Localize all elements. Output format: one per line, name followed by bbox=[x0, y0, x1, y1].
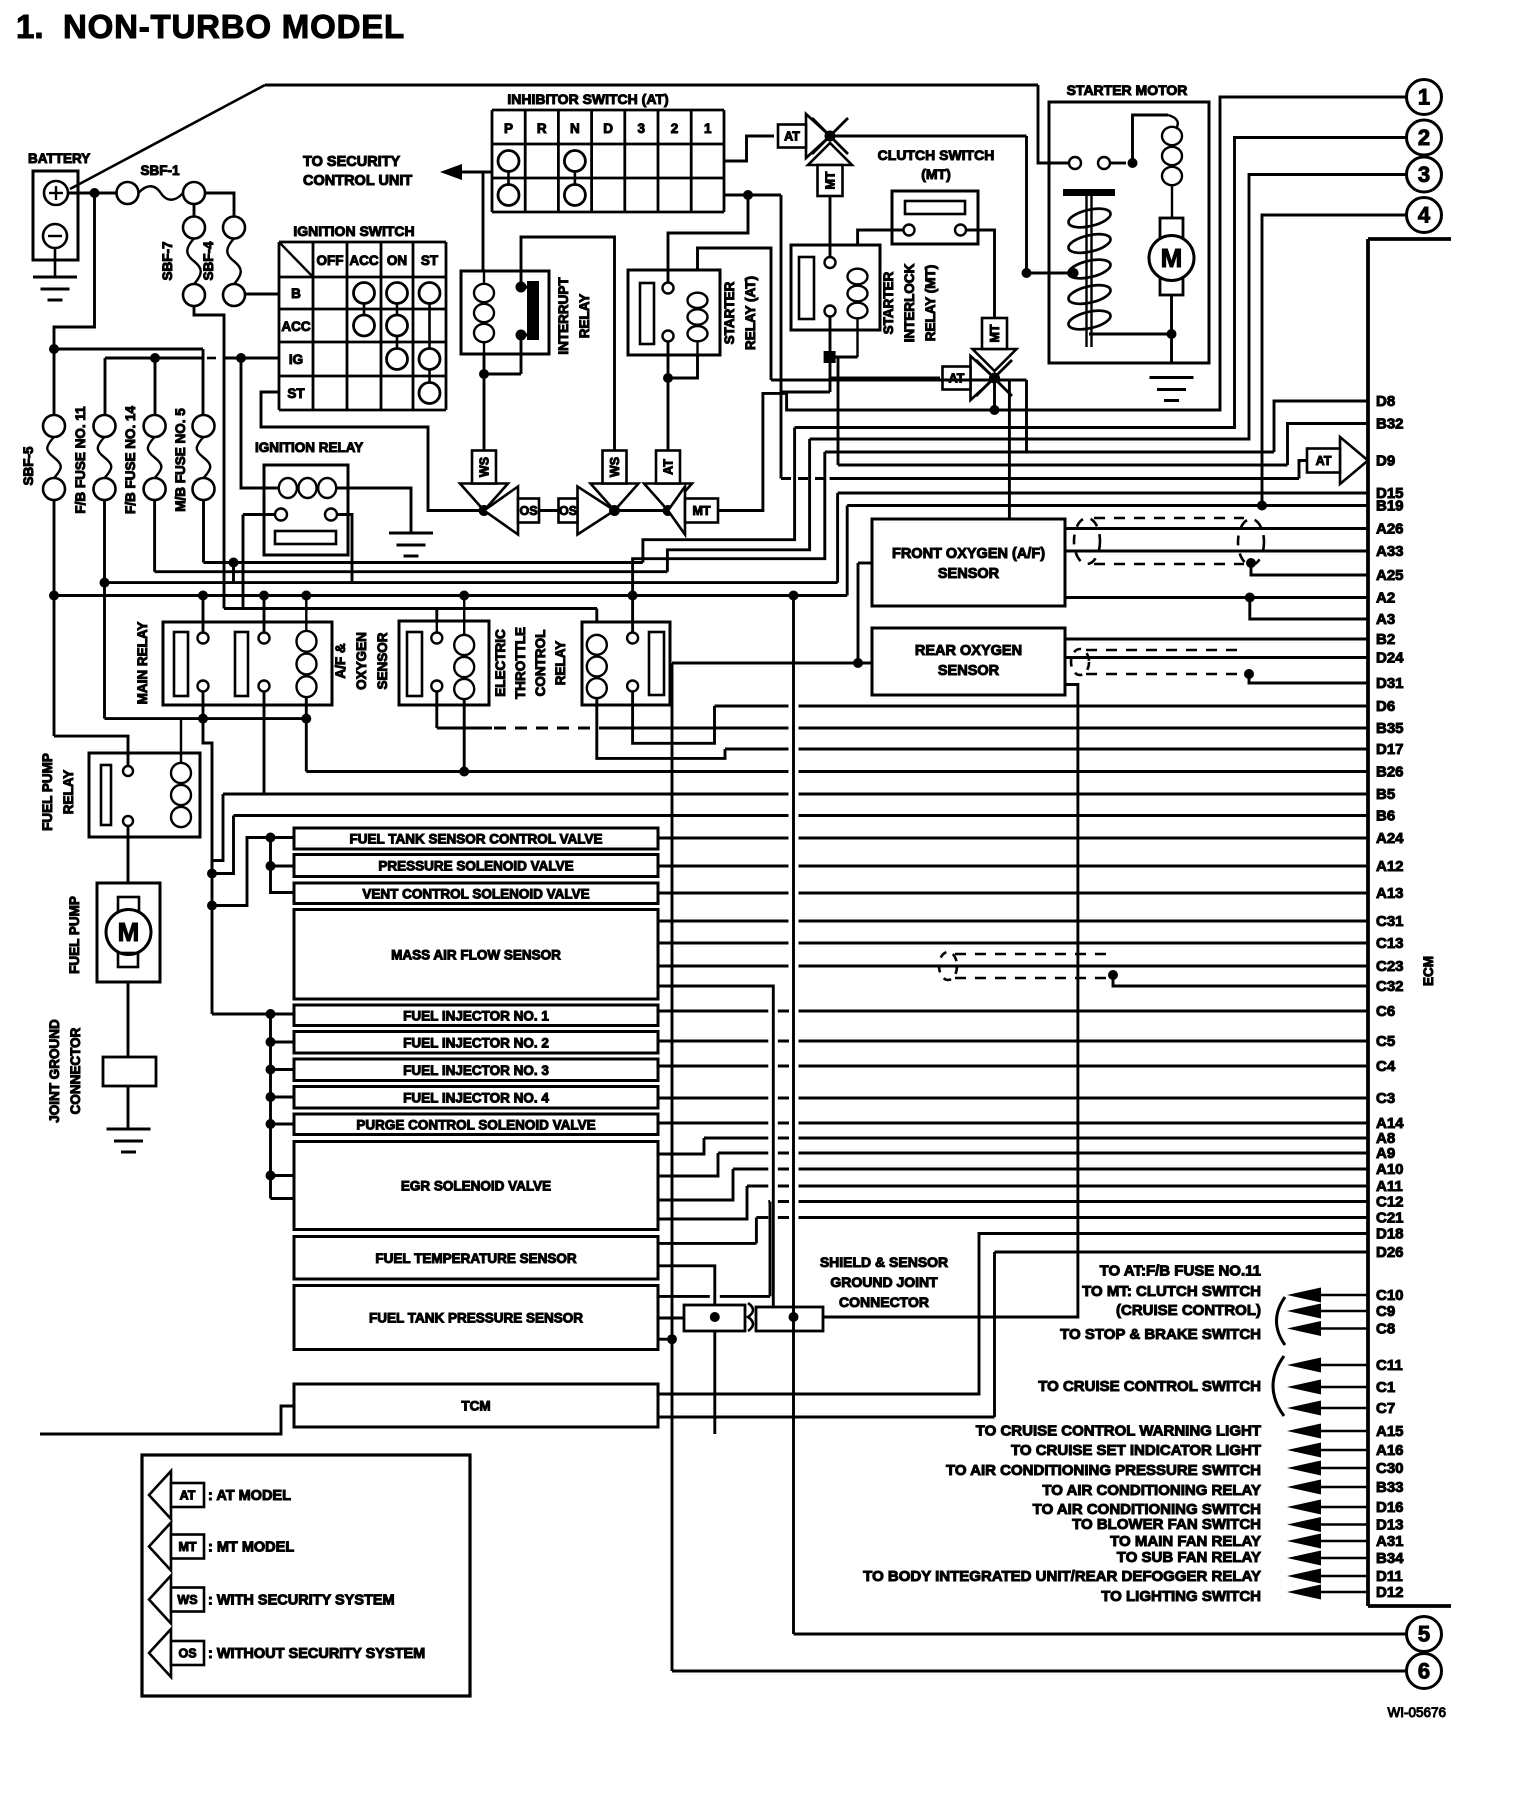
svg-text:MT: MT bbox=[988, 324, 1002, 342]
svg-text:B6: B6 bbox=[1376, 808, 1395, 825]
svg-text:N: N bbox=[570, 121, 580, 136]
svg-text:C11: C11 bbox=[1376, 1357, 1403, 1374]
svg-text:CONNECTOR: CONNECTOR bbox=[839, 1294, 929, 1310]
svg-text:C4: C4 bbox=[1376, 1058, 1396, 1075]
svg-text:B35: B35 bbox=[1376, 720, 1404, 737]
svg-text:EGR SOLENOID VALVE: EGR SOLENOID VALVE bbox=[401, 1179, 551, 1194]
svg-text:B33: B33 bbox=[1376, 1479, 1404, 1496]
svg-text:TO SUB FAN RELAY: TO SUB FAN RELAY bbox=[1117, 1549, 1261, 1566]
svg-text:(MT): (MT) bbox=[921, 166, 951, 182]
svg-text:INHIBITOR SWITCH (AT): INHIBITOR SWITCH (AT) bbox=[507, 91, 668, 107]
svg-text:: AT MODEL: : AT MODEL bbox=[208, 1488, 291, 1504]
svg-text:2: 2 bbox=[671, 121, 679, 136]
svg-text:C7: C7 bbox=[1376, 1400, 1395, 1417]
svg-text:A25: A25 bbox=[1376, 567, 1404, 584]
svg-text:MAIN RELAY: MAIN RELAY bbox=[135, 622, 150, 705]
svg-text:OS: OS bbox=[559, 504, 577, 518]
svg-text:MASS AIR FLOW SENSOR: MASS AIR FLOW SENSOR bbox=[391, 947, 561, 962]
svg-text:PURGE CONTROL SOLENOID VALVE: PURGE CONTROL SOLENOID VALVE bbox=[356, 1117, 595, 1132]
svg-text:C8: C8 bbox=[1376, 1321, 1395, 1338]
svg-text:A11: A11 bbox=[1376, 1178, 1403, 1195]
svg-text:INTERLOCK: INTERLOCK bbox=[902, 263, 917, 342]
svg-text:CONNECTOR: CONNECTOR bbox=[68, 1027, 83, 1114]
svg-text:A26: A26 bbox=[1376, 521, 1404, 538]
svg-text:TO STOP & BRAKE SWITCH: TO STOP & BRAKE SWITCH bbox=[1060, 1326, 1261, 1343]
svg-text:NON-TURBO MODEL: NON-TURBO MODEL bbox=[63, 8, 405, 45]
svg-text:A2: A2 bbox=[1376, 590, 1395, 607]
svg-text:C6: C6 bbox=[1376, 1003, 1395, 1020]
svg-text:BATTERY: BATTERY bbox=[28, 151, 90, 166]
svg-text:F/B FUSE NO. 14: F/B FUSE NO. 14 bbox=[123, 406, 138, 515]
svg-text:TO BODY INTEGRATED UNIT/REAR D: TO BODY INTEGRATED UNIT/REAR DEFOGGER RE… bbox=[863, 1568, 1261, 1585]
svg-text:SBF-7: SBF-7 bbox=[160, 241, 175, 280]
svg-text:JOINT GROUND: JOINT GROUND bbox=[47, 1019, 62, 1123]
svg-text:ST: ST bbox=[421, 253, 439, 268]
svg-text:C10: C10 bbox=[1376, 1287, 1404, 1304]
svg-text:B34: B34 bbox=[1376, 1550, 1404, 1567]
svg-text:IGNITION RELAY: IGNITION RELAY bbox=[255, 440, 363, 455]
svg-text:D16: D16 bbox=[1376, 1499, 1404, 1516]
svg-text:STARTER: STARTER bbox=[722, 281, 737, 344]
svg-text:SHIELD & SENSOR: SHIELD & SENSOR bbox=[820, 1254, 948, 1270]
svg-text:D13: D13 bbox=[1376, 1517, 1404, 1534]
svg-text:A33: A33 bbox=[1376, 543, 1404, 560]
svg-text:REAR OXYGEN: REAR OXYGEN bbox=[915, 643, 1022, 659]
svg-text:D18: D18 bbox=[1376, 1226, 1404, 1243]
svg-text:TO CRUISE SET INDICATOR LIGHT: TO CRUISE SET INDICATOR LIGHT bbox=[1011, 1442, 1261, 1459]
svg-text:(CRUISE CONTROL): (CRUISE CONTROL) bbox=[1116, 1302, 1261, 1319]
svg-text:2: 2 bbox=[1418, 125, 1430, 150]
svg-text:C5: C5 bbox=[1376, 1033, 1395, 1050]
svg-text:VENT CONTROL SOLENOID VALVE: VENT CONTROL SOLENOID VALVE bbox=[362, 886, 589, 901]
svg-text:D8: D8 bbox=[1376, 393, 1395, 410]
svg-text:M: M bbox=[1161, 243, 1183, 273]
svg-text:C3: C3 bbox=[1376, 1090, 1395, 1107]
svg-text:TO MT: CLUTCH SWITCH: TO MT: CLUTCH SWITCH bbox=[1082, 1283, 1261, 1300]
svg-text:IG: IG bbox=[289, 352, 303, 367]
svg-text:C23: C23 bbox=[1376, 958, 1404, 975]
svg-text:AT: AT bbox=[949, 372, 965, 386]
svg-text:OXYGEN: OXYGEN bbox=[354, 632, 369, 690]
svg-text:B32: B32 bbox=[1376, 416, 1404, 433]
svg-text:FUEL INJECTOR NO. 4: FUEL INJECTOR NO. 4 bbox=[403, 1090, 549, 1105]
svg-text:C12: C12 bbox=[1376, 1194, 1404, 1211]
svg-text:F/B FUSE NO. 11: F/B FUSE NO. 11 bbox=[73, 406, 88, 514]
svg-text:D31: D31 bbox=[1376, 675, 1404, 692]
svg-text:C13: C13 bbox=[1376, 935, 1404, 952]
svg-text:TO LIGHTING SWITCH: TO LIGHTING SWITCH bbox=[1101, 1588, 1261, 1605]
svg-text:TO BLOWER FAN SWITCH: TO BLOWER FAN SWITCH bbox=[1072, 1516, 1261, 1533]
svg-text:A12: A12 bbox=[1376, 858, 1404, 875]
svg-text:A15: A15 bbox=[1376, 1423, 1404, 1440]
svg-text:OFF: OFF bbox=[317, 253, 344, 268]
svg-text:4: 4 bbox=[1418, 203, 1431, 228]
svg-text:MT: MT bbox=[178, 1540, 196, 1554]
svg-text:SBF-4: SBF-4 bbox=[201, 241, 216, 280]
svg-text:C9: C9 bbox=[1376, 1303, 1395, 1320]
svg-text:SENSOR: SENSOR bbox=[938, 663, 1000, 679]
svg-text:STARTER MOTOR: STARTER MOTOR bbox=[1067, 82, 1188, 98]
svg-text:STARTER: STARTER bbox=[881, 271, 896, 334]
svg-text:D26: D26 bbox=[1376, 1244, 1404, 1261]
svg-text:THROTTLE: THROTTLE bbox=[513, 627, 528, 699]
svg-text:B2: B2 bbox=[1376, 631, 1395, 648]
svg-text:PRESSURE SOLENOID VALVE: PRESSURE SOLENOID VALVE bbox=[378, 859, 573, 874]
svg-text:FUEL TANK PRESSURE SENSOR: FUEL TANK PRESSURE SENSOR bbox=[369, 1311, 583, 1326]
svg-text:TO AIR CONDITIONING RELAY: TO AIR CONDITIONING RELAY bbox=[1042, 1482, 1261, 1499]
svg-text:FUEL PUMP: FUEL PUMP bbox=[40, 753, 55, 831]
svg-text:C32: C32 bbox=[1376, 978, 1404, 995]
svg-text:TO CRUISE CONTROL SWITCH: TO CRUISE CONTROL SWITCH bbox=[1038, 1378, 1261, 1395]
svg-text:CLUTCH SWITCH: CLUTCH SWITCH bbox=[878, 147, 995, 163]
svg-text:FUEL INJECTOR NO. 2: FUEL INJECTOR NO. 2 bbox=[403, 1035, 549, 1050]
svg-text:RELAY: RELAY bbox=[577, 294, 592, 339]
svg-text:C30: C30 bbox=[1376, 1460, 1404, 1477]
svg-text:B5: B5 bbox=[1376, 786, 1395, 803]
svg-text:IGNITION SWITCH: IGNITION SWITCH bbox=[293, 223, 414, 239]
svg-text:RELAY: RELAY bbox=[553, 641, 568, 686]
svg-text:3: 3 bbox=[1418, 162, 1430, 187]
svg-text:3: 3 bbox=[638, 121, 646, 136]
svg-text:6: 6 bbox=[1418, 1659, 1430, 1684]
svg-text:D: D bbox=[603, 121, 613, 136]
svg-text:AT: AT bbox=[180, 1489, 196, 1503]
svg-text:SBF-5: SBF-5 bbox=[21, 446, 36, 485]
svg-text:RELAY (AT): RELAY (AT) bbox=[743, 276, 758, 350]
svg-text:WS: WS bbox=[608, 457, 622, 477]
svg-text:D17: D17 bbox=[1376, 741, 1404, 758]
svg-text:C1: C1 bbox=[1376, 1379, 1395, 1396]
svg-text:RELAY: RELAY bbox=[61, 770, 76, 815]
svg-text:A24: A24 bbox=[1376, 830, 1404, 847]
svg-text:ACC: ACC bbox=[349, 253, 378, 268]
svg-text:FUEL INJECTOR NO. 3: FUEL INJECTOR NO. 3 bbox=[403, 1063, 549, 1078]
svg-text:A16: A16 bbox=[1376, 1442, 1404, 1459]
svg-text:TCM: TCM bbox=[461, 1399, 490, 1414]
svg-text:WS: WS bbox=[478, 457, 492, 477]
svg-text:1.: 1. bbox=[16, 8, 44, 45]
svg-text:OS: OS bbox=[178, 1647, 196, 1661]
svg-text:D11: D11 bbox=[1376, 1568, 1403, 1585]
svg-text:: MT MODEL: : MT MODEL bbox=[208, 1540, 294, 1556]
svg-text:B26: B26 bbox=[1376, 764, 1404, 781]
svg-text:ACC: ACC bbox=[281, 319, 310, 334]
svg-text:P: P bbox=[504, 121, 513, 136]
svg-text:AT: AT bbox=[662, 459, 676, 475]
svg-text:: WITH SECURITY SYSTEM: : WITH SECURITY SYSTEM bbox=[208, 1593, 395, 1609]
svg-text:M/B FUSE NO. 5: M/B FUSE NO. 5 bbox=[173, 408, 188, 512]
svg-text:SBF-1: SBF-1 bbox=[140, 163, 179, 178]
svg-text:FUEL TEMPERATURE SENSOR: FUEL TEMPERATURE SENSOR bbox=[375, 1251, 577, 1266]
svg-text:5: 5 bbox=[1418, 1622, 1430, 1647]
svg-text:SENSOR: SENSOR bbox=[938, 566, 1000, 582]
svg-text:FUEL PUMP: FUEL PUMP bbox=[67, 896, 82, 974]
svg-text:AT: AT bbox=[1316, 454, 1332, 468]
svg-text:RELAY (MT): RELAY (MT) bbox=[923, 265, 938, 342]
svg-text:D9: D9 bbox=[1376, 453, 1395, 470]
svg-text:FRONT OXYGEN (A/F): FRONT OXYGEN (A/F) bbox=[892, 546, 1045, 562]
svg-text:CONTROL: CONTROL bbox=[533, 630, 548, 697]
svg-text:TO CRUISE CONTROL WARNING LIGH: TO CRUISE CONTROL WARNING LIGHT bbox=[976, 1423, 1261, 1440]
svg-text:B: B bbox=[291, 286, 301, 301]
svg-text:WS: WS bbox=[177, 1593, 197, 1607]
svg-text:FUEL TANK SENSOR CONTROL VALVE: FUEL TANK SENSOR CONTROL VALVE bbox=[349, 832, 602, 847]
svg-text:SENSOR: SENSOR bbox=[375, 632, 390, 689]
svg-text:ELECTRIC: ELECTRIC bbox=[493, 629, 508, 697]
svg-text:M: M bbox=[118, 917, 140, 947]
svg-text:TO MAIN FAN RELAY: TO MAIN FAN RELAY bbox=[1110, 1533, 1261, 1550]
svg-text:FUEL INJECTOR NO. 1: FUEL INJECTOR NO. 1 bbox=[403, 1008, 549, 1023]
svg-text:MT: MT bbox=[824, 171, 838, 189]
svg-text:ST: ST bbox=[287, 386, 305, 401]
svg-text:R: R bbox=[537, 121, 547, 136]
svg-text:ECM: ECM bbox=[1421, 956, 1436, 986]
svg-text:D12: D12 bbox=[1376, 1584, 1404, 1601]
svg-text:AT: AT bbox=[784, 130, 800, 144]
svg-text:D6: D6 bbox=[1376, 698, 1395, 715]
svg-text:C21: C21 bbox=[1376, 1210, 1404, 1227]
svg-text:TO AIR CONDITIONING PRESSURE S: TO AIR CONDITIONING PRESSURE SWITCH bbox=[946, 1462, 1261, 1479]
svg-text:1: 1 bbox=[704, 121, 712, 136]
svg-text:A9: A9 bbox=[1376, 1145, 1395, 1162]
svg-text:CONTROL UNIT: CONTROL UNIT bbox=[303, 173, 412, 189]
svg-text:WI-05676: WI-05676 bbox=[1387, 1705, 1446, 1720]
svg-text:MT: MT bbox=[692, 504, 710, 518]
svg-text:D24: D24 bbox=[1376, 650, 1404, 667]
svg-text:OS: OS bbox=[519, 504, 537, 518]
svg-text:ON: ON bbox=[387, 253, 407, 268]
svg-text:TO AT:F/B FUSE NO.11: TO AT:F/B FUSE NO.11 bbox=[1100, 1263, 1261, 1280]
svg-text:C31: C31 bbox=[1376, 913, 1404, 930]
svg-text:A3: A3 bbox=[1376, 611, 1395, 628]
svg-text:: WITHOUT SECURITY SYSTEM: : WITHOUT SECURITY SYSTEM bbox=[208, 1646, 425, 1662]
svg-text:1: 1 bbox=[1418, 85, 1430, 110]
svg-text:GROUND JOINT: GROUND JOINT bbox=[830, 1274, 938, 1290]
svg-text:TO SECURITY: TO SECURITY bbox=[303, 154, 401, 170]
svg-text:B19: B19 bbox=[1376, 498, 1404, 515]
svg-text:A10: A10 bbox=[1376, 1161, 1404, 1178]
svg-text:INTERRUPT: INTERRUPT bbox=[556, 277, 571, 355]
svg-text:A31: A31 bbox=[1376, 1533, 1404, 1550]
svg-text:A/F &: A/F & bbox=[333, 643, 348, 678]
svg-text:A13: A13 bbox=[1376, 885, 1404, 902]
